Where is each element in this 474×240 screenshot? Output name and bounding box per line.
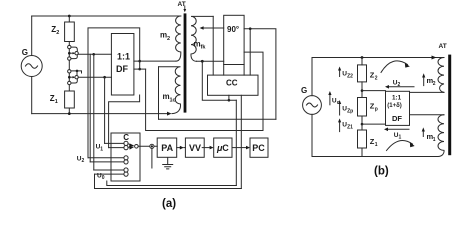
svg-text:1: 1 [375,142,378,148]
winding m2 (b) [427,58,445,93]
wire mfk bottom path to CC bottom area [202,61,236,100]
wire top rail (b) [312,57,444,59]
svg-text:(a): (a) [162,198,176,210]
node dot chain upper [361,89,364,92]
arrowhead into m1c bottom [167,112,172,116]
wire uC to PC with arrowhead [232,146,250,150]
node dot DF output B junction [138,68,141,71]
wire x=90.2 from DF input A wire down to commutator [89,54,91,162]
label Uc with arrow (b) [328,91,339,106]
commutator selector arrows [128,143,134,149]
node dot on DF input A [92,53,95,56]
node dot on S2 upper wire [76,70,79,73]
svg-text:(1+δ): (1+δ) [387,103,401,109]
wire top rail (a) [32,15,181,17]
commutator contact circles [124,141,128,176]
svg-text:p: p [375,107,378,113]
preamplifier PA [157,138,177,157]
svg-text:2: 2 [167,36,170,42]
svg-text:2: 2 [433,81,436,87]
wire CC bottom down to bottom bus 2 [240,95,242,188]
wire bottom rail (b) [312,156,438,158]
winding m1c [159,67,181,114]
svg-text:DF: DF [392,114,402,123]
wire mfk bottom to 90-box left edge [197,60,224,62]
wire x=93.8 from DF input A down to commutator [93,54,95,170]
label U0 [97,172,105,181]
op-amp block DF (b) [386,91,410,125]
phase shifter 90deg box [224,15,244,64]
commutator selector contact circle [135,145,139,149]
wire DF to m1 top (b) [410,114,445,116]
svg-text:1:1: 1:1 [392,94,402,101]
wire mfk top to CC [212,16,214,75]
svg-text:PA: PA [161,143,173,153]
ground under PA [163,158,173,169]
wire bottom bus 1 [107,181,237,186]
wire DF output B [134,68,146,70]
wire 90-box bottom stubs to CC [224,65,244,76]
impedance Zp (b) [358,98,378,117]
resistor Z1 [50,85,74,114]
generator G [21,48,42,77]
winding mfk [191,16,213,61]
node dot 90-box output [249,27,252,30]
svg-text:1: 1 [100,146,103,152]
svg-text:1: 1 [433,137,436,143]
svg-text:DF: DF [116,64,128,74]
svg-text:90°: 90° [227,25,239,34]
wire long return to m1c top [159,118,276,120]
wire winding m1c top drop [158,67,160,119]
commutator C box [111,133,140,181]
label U1 with arrow (b) [384,128,409,141]
transformer core AT (b) [448,55,451,156]
node dot on DF input B [103,76,106,79]
node dot top rail chain [361,56,364,59]
wire CC/mfk path down to bottom bus 1 [235,100,237,185]
wire switch S2 output to DF input B [78,76,111,78]
svg-text:1c: 1c [170,97,176,103]
svg-text:G: G [22,48,28,57]
voltmeter VV [185,138,204,157]
wire stub below connector [151,148,153,168]
svg-text:AT: AT [439,43,447,50]
wire input U1a to contact 1 [105,142,124,144]
wire switch S2 upper contact [71,71,82,73]
arrowhead on top rail [432,56,437,60]
switch S1 contacts [68,45,79,60]
wire input U1b to contact 2 [109,147,124,149]
svg-text:PC: PC [252,143,265,153]
svg-text:0: 0 [102,175,105,181]
svg-text:Z2: Z2 [347,73,353,79]
arrow beside m1 label [422,127,425,136]
wire DF to m2 bottom (b) [410,91,445,93]
svg-text:2: 2 [56,30,59,36]
label UZp with arrow (b) [338,100,353,115]
node junction dot top rail / Z2 [68,15,71,18]
label U2 [77,155,85,164]
transformer core AT [184,13,187,112]
op-amp block U-DF 1:1 [111,34,133,96]
wire DF bottom L-wire to commutator input 2 [109,95,140,148]
svg-text:C: C [222,143,229,153]
svg-text:VV: VV [189,143,201,153]
wire left rail (b) [311,58,313,157]
wire dot down to CC top [249,29,251,75]
svg-text:(b): (b) [374,166,389,178]
svg-text:C: C [123,133,129,142]
wire input U2a to contact 3 [88,157,124,159]
svg-text:G: G [301,86,307,95]
wire commutator output to PA [138,145,157,147]
svg-text:2: 2 [375,75,378,81]
svg-text:Z1: Z1 [347,125,353,131]
label UZ2 with arrow (b) [338,67,353,80]
wire chain to DF lower [362,123,386,125]
wire input U2b to contact 4 [90,161,124,163]
curved arrow loop bottom (b) [387,140,415,150]
wire CC bottom stub [228,95,230,100]
impedance Z2 (b) [358,58,378,98]
wire left rail (a) [31,16,33,114]
microcontroller uC [214,138,232,157]
connector circle before PA [150,144,154,148]
arrow from 90-box into winding mfk [200,26,224,30]
curved arrow loop top (b) [381,61,410,73]
winding m1 (b) [427,115,445,157]
impedance Z1 (b) [358,116,378,157]
node dot chain lower [361,123,364,126]
wire VV to uC with arrowhead [202,146,213,150]
wire 90-box right output [244,29,276,120]
wire input U0b to contact 6 [95,173,124,175]
svg-text:1: 1 [399,135,402,141]
label U2 with arrow (b) [385,79,414,88]
svg-text:Zp: Zp [347,108,353,114]
wire PA to VV with arrowhead [177,146,186,150]
wire chain to DF upper [362,90,386,92]
svg-text:2: 2 [82,158,85,164]
svg-text:CC: CC [226,79,238,88]
svg-text:1: 1 [55,99,58,105]
wire loop over DF (x=88 drop to commutator) [88,28,140,158]
label AT with down arrow [178,1,187,13]
node dot Z1 bottom rail [68,112,71,115]
wire bottom rail (a) [32,113,168,115]
wire 90-box lower right to bus [244,52,263,130]
computer PC [250,138,268,157]
resistor Z2 [51,16,74,46]
wire x=104.6 from DF input B down to commutator [104,77,106,143]
label UZ1 with arrow (b) [338,118,353,131]
switch S2 contacts [68,60,79,84]
comparator CC box [208,75,259,95]
node dot mfk-bottom path / CC stub [228,99,231,102]
arrow beside m2 label [422,73,425,85]
wire stub dot to contact circle top [76,71,78,76]
generator G (b) [301,86,321,114]
wire switch S1 output to DF input A [78,53,111,55]
label U1 [96,144,104,153]
svg-text:1:1: 1:1 [117,52,130,62]
winding m2 [160,16,181,61]
wire DF output A to winding m2 bottom [134,60,176,62]
node dot on mfk bottom wire [201,60,204,63]
wire bottom bus 2 to commutator input 6 [95,174,242,188]
wire DF output B bus [146,69,263,130]
wire input U0a to contact 5 [94,169,124,171]
node dot DF output A junction [138,60,141,63]
